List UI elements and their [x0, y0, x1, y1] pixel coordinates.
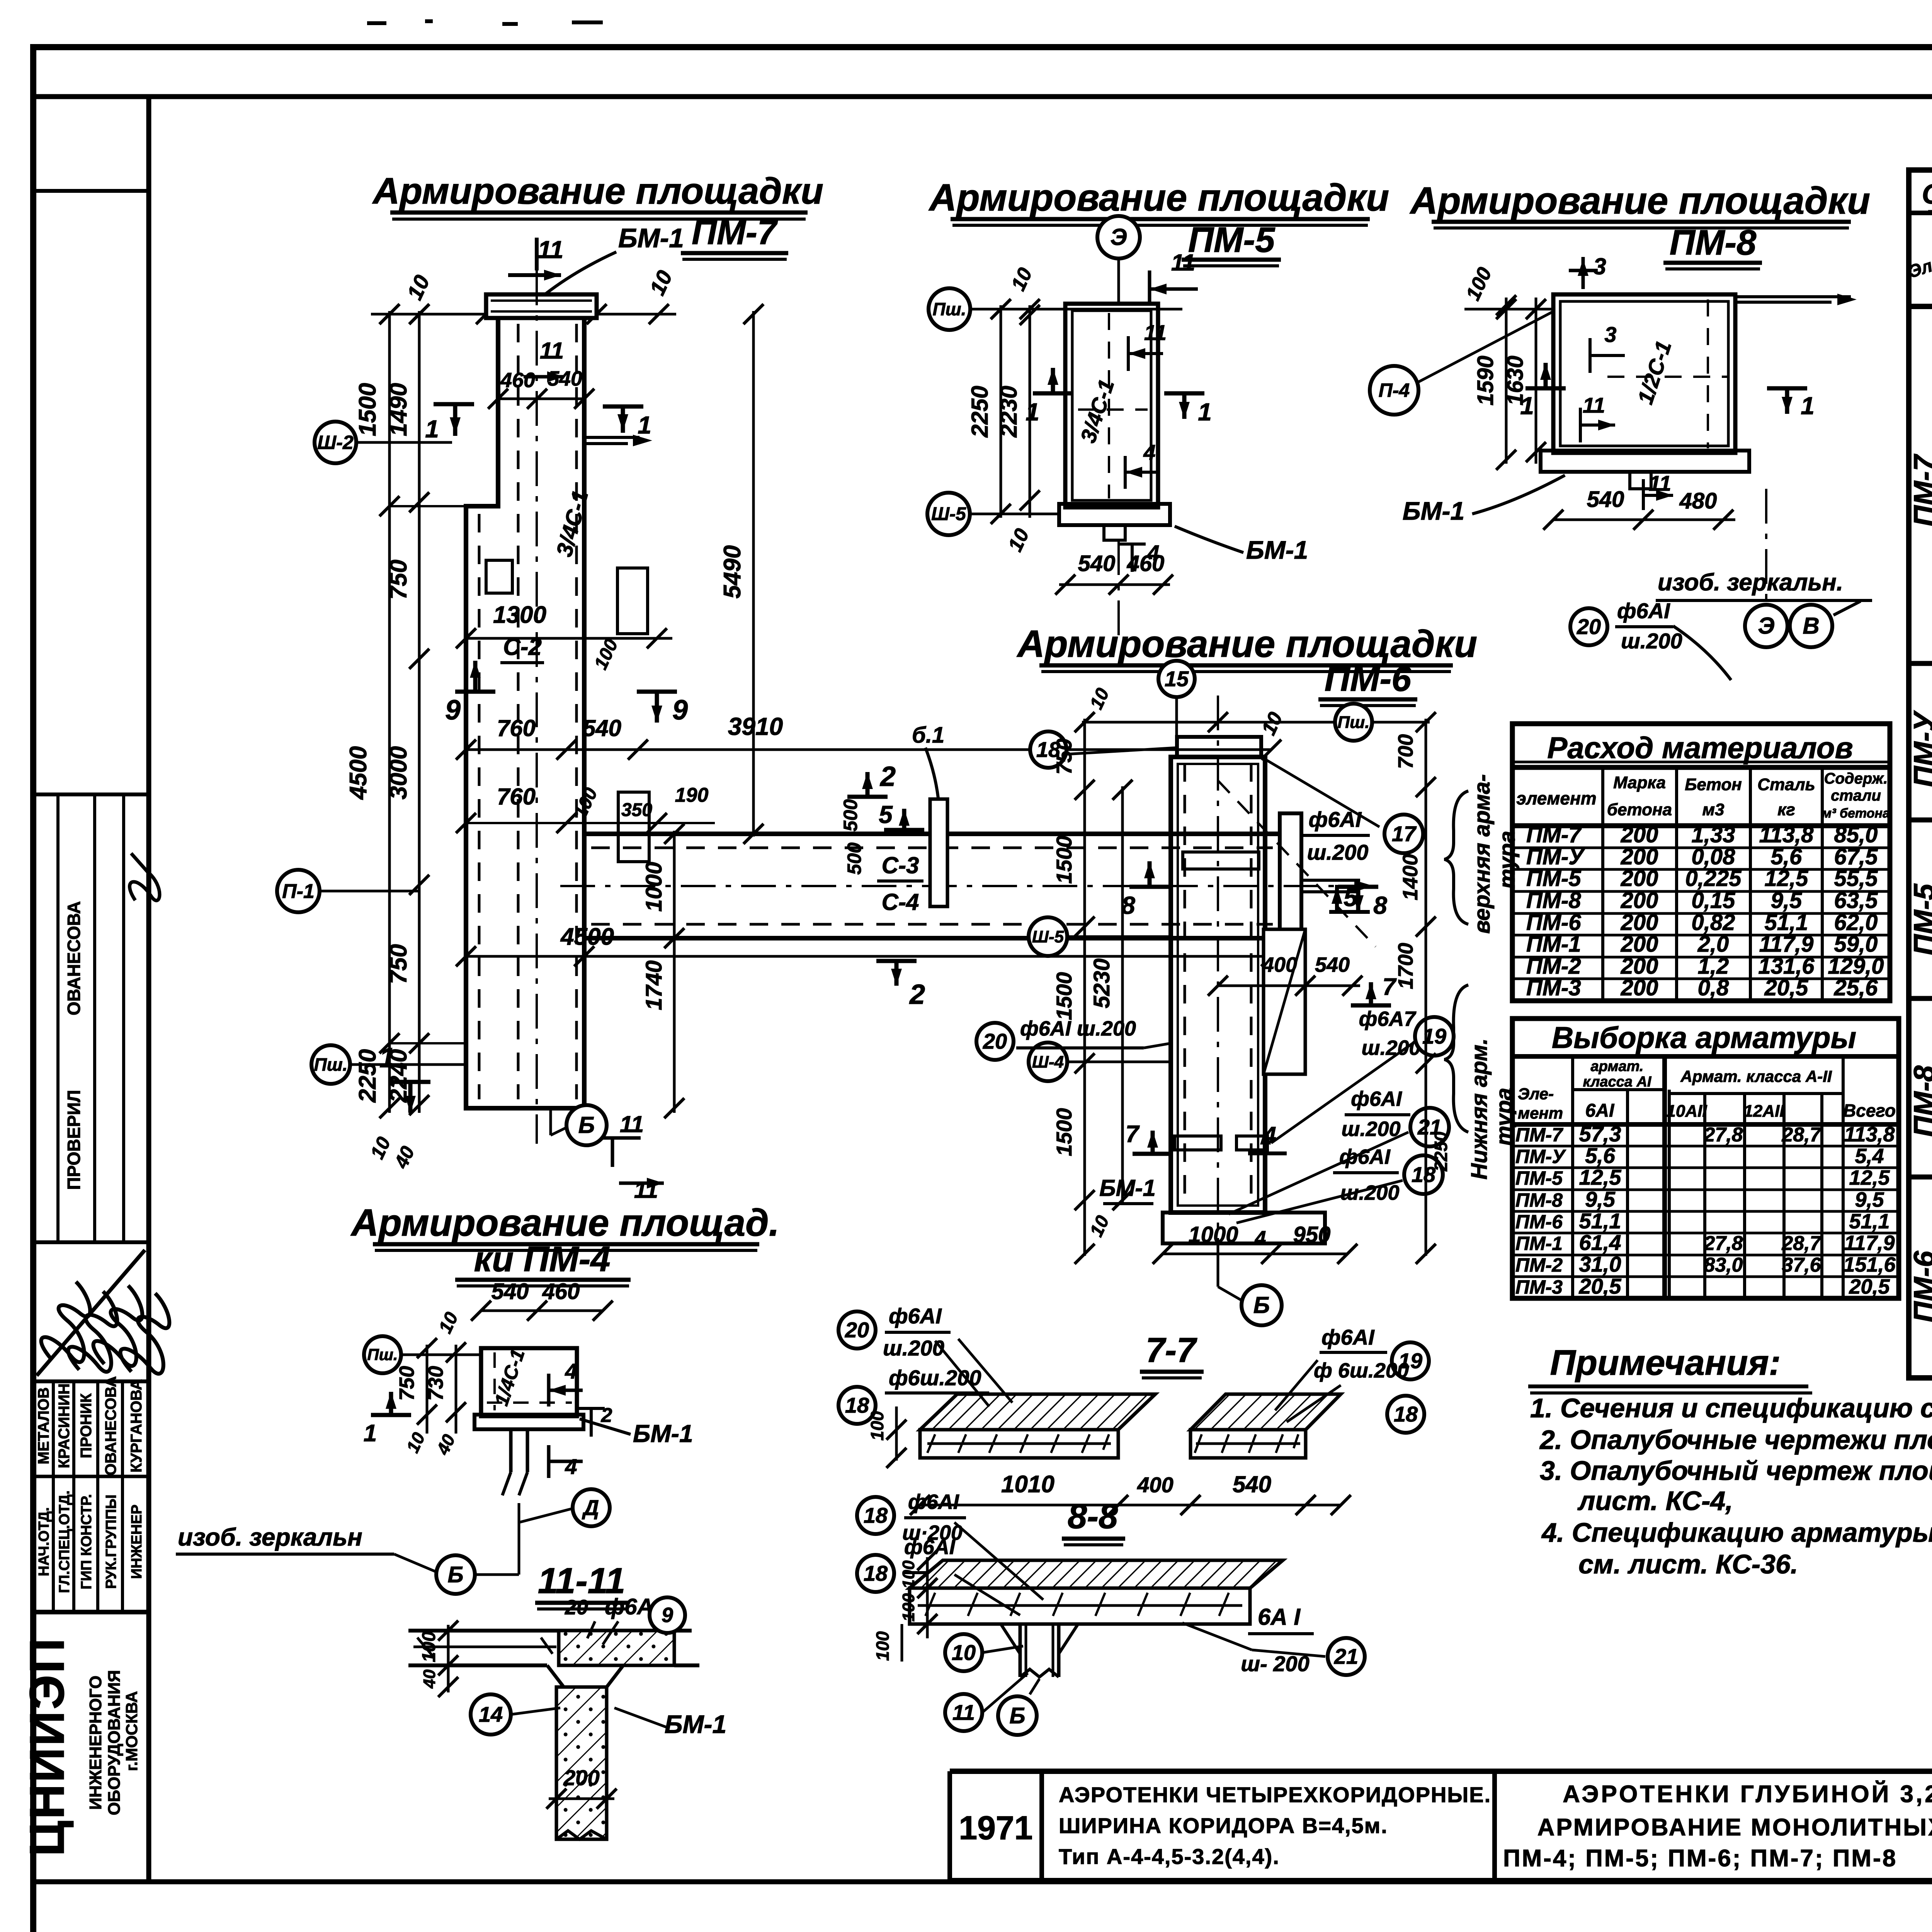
svg-text:21: 21 — [1334, 1644, 1358, 1668]
svg-text:С-3: С-3 — [882, 852, 919, 878]
section 8-8 leaders from labels — [954, 1522, 1043, 1600]
section 11-11 dims left — [447, 1625, 450, 1692]
PM-5 main rect — [1065, 304, 1158, 507]
svg-text:м3: м3 — [1702, 800, 1724, 819]
svg-text:200: 200 — [1621, 932, 1658, 957]
svg-text:Марка: Марка — [1613, 773, 1666, 792]
PM-6 right dim chain — [1425, 719, 1427, 1256]
svg-text:ф6А7: ф6А7 — [1359, 1007, 1417, 1031]
svg-text:20,5: 20,5 — [1764, 975, 1809, 1000]
bottom band line — [33, 1879, 1932, 1884]
PM-7 arm plate B1 — [930, 799, 947, 906]
svg-text:9: 9 — [445, 695, 461, 726]
svg-text:ПМ-5: ПМ-5 — [1515, 1167, 1563, 1189]
svg-text:ф6АI ш.200: ф6АI ш.200 — [1020, 1017, 1136, 1040]
svg-text:кг: кг — [1777, 800, 1795, 819]
PM-7 right dim 5490 — [752, 311, 755, 837]
svg-text:1: 1 — [638, 411, 651, 439]
svg-text:2250: 2250 — [967, 386, 993, 437]
svg-text:Э: Э — [1758, 613, 1774, 639]
svg-text:55,5: 55,5 — [1834, 866, 1878, 891]
PM-7 left axis circle Sh-2 — [315, 422, 356, 463]
svg-text:лист. КС-4,: лист. КС-4, — [1577, 1486, 1733, 1516]
svg-text:200: 200 — [1621, 888, 1658, 913]
svg-text:540: 540 — [1587, 487, 1624, 512]
svg-text:3: 3 — [1604, 322, 1616, 347]
svg-text:11: 11 — [952, 1700, 975, 1725]
svg-text:ПМ-4; ПМ-5; ПМ-6; ПМ-7; ПМ-8: ПМ-4; ПМ-5; ПМ-6; ПМ-7; ПМ-8 — [1503, 1845, 1897, 1872]
PM-7 top axis line — [371, 313, 676, 316]
svg-text:85,0: 85,0 — [1834, 822, 1878, 847]
svg-text:Армирование площадки: Армирование площадки — [372, 170, 823, 212]
svg-text:20,5: 20,5 — [1849, 1275, 1890, 1298]
svg-text:ПРОВЕРИЛ: ПРОВЕРИЛ — [64, 1090, 84, 1190]
svg-text:4: 4 — [565, 1454, 577, 1479]
svg-text:ш.200: ш.200 — [1307, 840, 1369, 864]
stamp name-title columns vlines — [52, 1381, 55, 1612]
svg-text:1590: 1590 — [1473, 355, 1498, 405]
svg-text:1500: 1500 — [1052, 836, 1076, 884]
svg-text:5490: 5490 — [719, 545, 746, 599]
svg-text:РУК.ГРУППЫ: РУК.ГРУППЫ — [103, 1495, 119, 1589]
svg-text:750: 750 — [385, 944, 412, 984]
PM-7 step small rect — [486, 560, 512, 593]
svg-text:ОВАНЕСОВА: ОВАНЕСОВА — [102, 1376, 119, 1475]
section 11-11 column hatched — [556, 1687, 607, 1839]
svg-text:1700: 1700 — [1394, 943, 1417, 989]
svg-text:59,0: 59,0 — [1834, 932, 1878, 957]
PM-8 circles E V — [1765, 489, 1767, 604]
section 8-8 labels left — [857, 1497, 894, 1534]
svg-text:Армирование площадки: Армирование площадки — [1409, 179, 1870, 222]
svg-text:ГИП КОНСТР.: ГИП КОНСТР. — [78, 1494, 95, 1590]
svg-text:ПМ-У: ПМ-У — [1515, 1146, 1566, 1167]
PM-6 mid plates — [1175, 1136, 1221, 1150]
svg-text:8-8: 8-8 — [1068, 1497, 1118, 1536]
svg-text:верхняя арма-: верхняя арма- — [1469, 774, 1495, 934]
svg-text:Пш.: Пш. — [314, 1054, 348, 1075]
svg-text:100: 100 — [867, 1411, 887, 1440]
svg-text:18: 18 — [864, 1503, 888, 1527]
PM-6 wall centerline — [1217, 696, 1219, 1267]
svg-text:9,5: 9,5 — [1855, 1188, 1884, 1211]
svg-text:950: 950 — [1293, 1222, 1331, 1247]
PM-5 dim 2250 2230 — [1000, 305, 1002, 518]
svg-text:КУРГАНОВА: КУРГАНОВА — [128, 1379, 145, 1473]
svg-text:ПМ-У: ПМ-У — [1908, 710, 1932, 787]
svg-text:ф6АI: ф6АI — [1617, 599, 1670, 623]
svg-text:63,5: 63,5 — [1834, 888, 1878, 913]
svg-text:ф 6ш.200: ф 6ш.200 — [1314, 1359, 1409, 1382]
section 11-11 circle 14 — [471, 1694, 511, 1735]
rashod table frame — [1512, 724, 1890, 1001]
svg-text:2250: 2250 — [354, 1049, 381, 1103]
svg-text:ПМ-5: ПМ-5 — [1908, 883, 1932, 955]
svg-text:117,9: 117,9 — [1759, 932, 1814, 957]
svg-text:1: 1 — [379, 1043, 395, 1073]
svg-text:тура: тура — [1492, 1088, 1517, 1146]
svg-text:730: 730 — [424, 1366, 447, 1401]
PM-6 dim 5230 — [1121, 786, 1124, 1204]
svg-text:7: 7 — [1126, 1121, 1140, 1148]
svg-text:Ш-2: Ш-2 — [317, 432, 354, 453]
svg-text:Сталь: Сталь — [1757, 775, 1815, 794]
PM-7 dim extension lines — [389, 505, 466, 507]
svg-text:117,9: 117,9 — [1844, 1231, 1895, 1255]
PM-7 inner opening small rect A — [617, 568, 648, 634]
svg-text:ШИРИНА КОРИДОРА В=4,5м.: ШИРИНА КОРИДОРА В=4,5м. — [1059, 1813, 1388, 1838]
top band line — [33, 94, 1932, 99]
spec table outer frame — [1909, 170, 1932, 1378]
svg-text:2250: 2250 — [1431, 1131, 1451, 1172]
svg-text:51,1: 51,1 — [1579, 1209, 1621, 1233]
svg-text:ОВАНЕСОВА: ОВАНЕСОВА — [64, 901, 84, 1015]
svg-text:200: 200 — [1621, 822, 1658, 847]
stamp signature top — [112, 853, 172, 910]
section 8-8 slab — [910, 1560, 1283, 1588]
svg-text:1: 1 — [1801, 392, 1815, 420]
svg-text:бетона: бетона — [1607, 800, 1672, 819]
svg-text:П-4: П-4 — [1379, 379, 1410, 401]
svg-text:151,6: 151,6 — [1843, 1253, 1896, 1276]
svg-text:0,8: 0,8 — [1698, 975, 1729, 1000]
PM-7 dim 4500 arm — [466, 955, 1271, 958]
PM-8 top axis line right — [1735, 295, 1851, 298]
svg-text:ф6АI: ф6АI — [1351, 1087, 1402, 1111]
svg-text:4: 4 — [1143, 440, 1155, 464]
svg-text:2230: 2230 — [996, 386, 1022, 437]
svg-text:АЭРОТЕНКИ ЧЕТЫРЕХКОРИДОРНЫЕ.: АЭРОТЕНКИ ЧЕТЫРЕХКОРИДОРНЫЕ. — [1059, 1782, 1491, 1807]
svg-text:0,15: 0,15 — [1692, 888, 1736, 913]
svg-text:6АI: 6АI — [1585, 1100, 1615, 1121]
svg-text:3910: 3910 — [728, 713, 783, 740]
svg-text:изоб. зеркальн.: изоб. зеркальн. — [1658, 569, 1843, 596]
PM-7 section marks 5 — [884, 828, 924, 832]
PM-6 axis circle Sh-4 — [1029, 1043, 1067, 1081]
svg-text:б.1: б.1 — [912, 723, 944, 748]
svg-text:армат.: армат. — [1591, 1058, 1644, 1075]
section 11-11 slab left — [408, 1629, 692, 1633]
svg-text:1500: 1500 — [1052, 972, 1076, 1020]
svg-text:100: 100 — [899, 1593, 918, 1622]
PM-8 inner dashed — [1707, 299, 1709, 448]
section 7-7 dims — [920, 1504, 1341, 1507]
svg-text:Б: Б — [578, 1112, 595, 1138]
svg-text:1. Сечения и спецификацию см.: 1. Сечения и спецификацию см.КС-36. — [1530, 1393, 1932, 1423]
svg-text:460: 460 — [500, 369, 535, 392]
svg-text:ПМ-7: ПМ-7 — [1526, 822, 1582, 847]
svg-text:460: 460 — [1127, 551, 1165, 576]
svg-text:ПМ-2: ПМ-2 — [1515, 1254, 1563, 1276]
svg-text:18: 18 — [864, 1561, 888, 1585]
svg-text:ф6АI: ф6АI — [1321, 1325, 1375, 1349]
PM-7 wall outline — [466, 318, 584, 1108]
svg-text:ф6АI: ф6АI — [1309, 807, 1362, 832]
svg-text:4: 4 — [1255, 1227, 1266, 1250]
svg-text:Ш-4: Ш-4 — [1032, 1053, 1064, 1071]
svg-text:Эле-: Эле- — [1518, 1085, 1554, 1103]
section 11-11 slab right hatched — [559, 1631, 674, 1665]
svg-text:ш.200: ш.200 — [1621, 629, 1682, 653]
svg-text:ф6ш.200: ф6ш.200 — [889, 1366, 981, 1390]
svg-text:750: 750 — [1052, 738, 1076, 774]
svg-text:3. Опалубочный чертеж площад: 3. Опалубочный чертеж площадки ПМ-6 см. — [1540, 1456, 1932, 1486]
svg-text:Армат. класса А-II: Армат. класса А-II — [1680, 1067, 1832, 1085]
section 8-8 dims left — [926, 1557, 929, 1638]
PM-7 arm outline — [584, 832, 1280, 836]
PM-8 dims 1590 1630 — [1505, 298, 1508, 464]
svg-text:П-1: П-1 — [282, 880, 315, 903]
svg-text:С-2: С-2 — [503, 634, 542, 660]
scan specks top — [367, 21, 386, 25]
svg-text:500: 500 — [844, 842, 865, 875]
svg-text:ф6АI: ф6АI — [889, 1304, 942, 1328]
svg-text:ПМ-6: ПМ-6 — [1515, 1211, 1563, 1233]
PM-8 main rect — [1553, 294, 1735, 453]
title block frame — [950, 1769, 1932, 1774]
svg-text:2. Опалубочные чертежи площа: 2. Опалубочные чертежи площадок см.КС-35… — [1539, 1425, 1932, 1455]
svg-text:9: 9 — [662, 1604, 673, 1627]
section 8-8 circles 10 11 — [945, 1634, 982, 1671]
svg-text:20: 20 — [565, 1596, 588, 1619]
svg-text:31,0: 31,0 — [1579, 1252, 1621, 1276]
svg-text:Выборка арматуры: Выборка арматуры — [1552, 1020, 1856, 1054]
PM-5 section marks 1 — [1033, 391, 1073, 396]
PM-7 circle B bottom — [549, 1110, 552, 1135]
vyborka header boxes — [1571, 1056, 1574, 1298]
svg-text:28,7: 28,7 — [1781, 1232, 1821, 1255]
svg-text:100: 100 — [872, 1631, 893, 1661]
svg-text:Ш-5: Ш-5 — [931, 504, 966, 524]
PM-6 axis circle Sh-5 — [1029, 917, 1067, 956]
PM-7 left dim chain inner — [418, 311, 421, 1113]
PM-4 leader to D circle — [518, 1503, 520, 1522]
svg-text:480: 480 — [1679, 488, 1717, 514]
svg-text:Содерж.: Содерж. — [1824, 770, 1888, 787]
PM-6 circle B bottom — [1217, 1243, 1219, 1287]
spec table group separators full — [1909, 661, 1932, 666]
PM-4 section marks 1 — [371, 1413, 411, 1417]
stamp internal hlines — [33, 189, 149, 193]
svg-text:ПМ-3: ПМ-3 — [1515, 1276, 1563, 1298]
svg-text:1010: 1010 — [1001, 1471, 1054, 1498]
svg-text:1: 1 — [1026, 398, 1039, 426]
svg-text:элемент: элемент — [1516, 788, 1596, 808]
svg-text:МЕТАЛОВ: МЕТАЛОВ — [35, 1387, 52, 1464]
PM-8 bottom plate — [1541, 451, 1749, 472]
svg-text:ш.200: ш.200 — [883, 1336, 944, 1360]
svg-text:ПМ-1: ПМ-1 — [1515, 1233, 1563, 1254]
svg-text:14: 14 — [479, 1702, 503, 1726]
svg-text:Бетон: Бетон — [1685, 775, 1742, 794]
PM-6 inner bar 8-8 level — [1183, 852, 1259, 869]
svg-text:Армирование площадки: Армирование площадки — [1016, 622, 1477, 665]
svg-text:200: 200 — [1621, 975, 1658, 1000]
svg-text:Всего: Всего — [1843, 1100, 1896, 1121]
svg-text:ПМ-5: ПМ-5 — [1188, 220, 1276, 260]
svg-text:460: 460 — [542, 1279, 580, 1304]
svg-text:ш.200: ш.200 — [1341, 1117, 1400, 1141]
svg-text:БМ-1: БМ-1 — [1246, 536, 1308, 564]
PM-5 axis circle Sh-5 — [927, 493, 970, 535]
svg-text:ЦНИИЭП: ЦНИИЭП — [20, 1637, 74, 1856]
svg-text:1: 1 — [425, 415, 439, 443]
PM-7 wall inner dashed lines — [517, 324, 520, 1099]
svg-text:Ш-5: Ш-5 — [1032, 927, 1064, 946]
svg-text:тура: тура — [1495, 831, 1520, 889]
svg-text:БМ-1: БМ-1 — [665, 1710, 726, 1738]
section 7-7 leaders — [935, 1341, 989, 1406]
PM-6 bottom dims — [1163, 1253, 1347, 1255]
stamp zone A sub vlines — [56, 794, 60, 1242]
svg-text:С-4: С-4 — [882, 889, 919, 915]
PM-4 inner dashed — [493, 1352, 496, 1410]
PM-6 opening rect — [1264, 929, 1305, 1074]
svg-text:1300: 1300 — [493, 602, 546, 628]
svg-text:83,0: 83,0 — [1704, 1254, 1743, 1276]
svg-text:4500: 4500 — [560, 923, 614, 950]
svg-text:ПМ-8: ПМ-8 — [1908, 1065, 1932, 1137]
svg-text:БМ-1: БМ-1 — [618, 223, 684, 253]
svg-text:11: 11 — [540, 338, 564, 364]
label 20 cluster below PM-5 — [1570, 608, 1607, 645]
svg-text:ф6АI: ф6АI — [908, 1490, 959, 1514]
section 8-8 circle B — [1030, 1679, 1039, 1694]
svg-text:40: 40 — [420, 1669, 439, 1689]
svg-text:17: 17 — [1392, 821, 1417, 846]
PM-6 wall outline — [1171, 757, 1265, 1213]
svg-text:540: 540 — [583, 715, 621, 741]
section 7-7 slab right — [1190, 1394, 1341, 1430]
svg-text:3000: 3000 — [385, 746, 412, 799]
section 11-11 neck — [547, 1665, 623, 1687]
svg-text:г.МОСКВА: г.МОСКВА — [122, 1691, 141, 1771]
svg-text:11: 11 — [620, 1111, 644, 1137]
svg-text:м³ бетона: м³ бетона — [1822, 806, 1890, 821]
svg-text:7-7: 7-7 — [1146, 1331, 1197, 1370]
section 8-8 column below — [1019, 1624, 1022, 1677]
svg-text:200: 200 — [563, 1765, 599, 1790]
spec table header bottom line — [1909, 304, 1932, 309]
svg-text:61,4: 61,4 — [1579, 1230, 1621, 1255]
svg-text:Примечания:: Примечания: — [1550, 1343, 1781, 1383]
svg-text:ПМ-8: ПМ-8 — [1526, 888, 1581, 913]
svg-text:5230: 5230 — [1089, 958, 1114, 1008]
svg-text:100: 100 — [899, 1560, 918, 1589]
svg-text:15: 15 — [1165, 667, 1189, 691]
svg-text:Армирование площадки: Армирование площадки — [928, 176, 1389, 219]
svg-text:18: 18 — [1394, 1402, 1418, 1426]
svg-text:ПМ-7: ПМ-7 — [1908, 453, 1932, 526]
PM-4 plate — [474, 1415, 583, 1429]
PM-6 bottom plate — [1163, 1213, 1325, 1243]
PM-7 arm centerline with exit arrow — [560, 885, 1368, 887]
svg-text:1500: 1500 — [354, 383, 381, 436]
svg-text:190: 190 — [675, 784, 709, 806]
svg-text:1000: 1000 — [641, 862, 667, 912]
svg-text:5: 5 — [879, 801, 893, 828]
svg-text:540: 540 — [1315, 953, 1350, 976]
PM-6 wall inner dashed — [1184, 763, 1186, 1206]
svg-text:10АII: 10АII — [1666, 1102, 1707, 1121]
PM-6 circle 20 left — [976, 1023, 1014, 1060]
svg-text:4: 4 — [565, 1359, 577, 1383]
PM-8 axis circle P-4 — [1370, 366, 1418, 415]
svg-text:2,0: 2,0 — [1697, 932, 1729, 957]
PM-7 inner opening small rect B — [618, 792, 649, 862]
svg-text:мент: мент — [1518, 1104, 1563, 1122]
PM-5 bottom plate — [1059, 504, 1170, 525]
svg-text:5,6: 5,6 — [1585, 1143, 1616, 1168]
svg-text:ПМ-3: ПМ-3 — [1526, 975, 1581, 1000]
PM-6 mark 7 right — [1351, 1003, 1391, 1008]
svg-text:Б: Б — [1009, 1703, 1025, 1728]
PM-7 left axis circle Psh — [311, 1045, 350, 1084]
svg-text:ф6АI: ф6АI — [904, 1536, 956, 1559]
svg-text:Армирование площад.: Армирование площад. — [350, 1201, 779, 1244]
PM-7 section marks 1 lower — [390, 1080, 430, 1084]
svg-text:11: 11 — [538, 236, 563, 264]
vyborka table frame — [1512, 1019, 1899, 1298]
PM-7 left dim chain outer — [388, 311, 391, 1113]
svg-text:1: 1 — [1198, 398, 1212, 426]
svg-text:1740: 1740 — [641, 960, 667, 1010]
svg-text:540: 540 — [548, 367, 582, 390]
svg-text:Пш.: Пш. — [1338, 713, 1370, 732]
svg-text:200: 200 — [1621, 866, 1658, 891]
svg-text:ф6АI: ф6АI — [1339, 1145, 1391, 1168]
svg-text:20,5: 20,5 — [1579, 1274, 1622, 1298]
svg-text:400: 400 — [1262, 953, 1297, 976]
PM-4 main rect — [481, 1348, 577, 1416]
svg-text:4. Спецификацию арматуры на: 4. Спецификацию арматуры на ПМ-1,2,3 — [1541, 1517, 1932, 1548]
PM-7 section 1-1 exit arrow right — [584, 436, 639, 439]
PM-7 dim row 760 540 3910 — [466, 748, 1271, 751]
svg-text:12,5: 12,5 — [1765, 866, 1809, 891]
stamp signatures block — [36, 1279, 112, 1372]
PM-4 axis circle Psh — [364, 1336, 401, 1373]
PM-6 mark 7 left — [1133, 1152, 1173, 1156]
svg-text:2: 2 — [879, 761, 896, 792]
svg-text:750: 750 — [385, 560, 412, 599]
PM-7 section marks 9 — [455, 690, 495, 694]
PM-7 dim 1000 1740 — [673, 831, 676, 1113]
svg-text:Расход материалов: Расход материалов — [1547, 731, 1853, 765]
svg-text:АРМИРОВАНИЕ МОНОЛИТНЫХ ПЛОЩАДО: АРМИРОВАНИЕ МОНОЛИТНЫХ ПЛОЩАДОК — [1537, 1814, 1932, 1841]
rashod column lines — [1601, 767, 1604, 1001]
svg-text:Б: Б — [1253, 1292, 1270, 1318]
svg-text:51,1: 51,1 — [1849, 1210, 1889, 1233]
svg-text:20: 20 — [845, 1318, 869, 1342]
svg-text:2: 2 — [909, 979, 925, 1010]
PM-7 section marks 2 — [847, 795, 888, 799]
svg-text:3: 3 — [1593, 253, 1606, 279]
svg-text:1490: 1490 — [385, 383, 412, 436]
svg-text:12,5: 12,5 — [1579, 1165, 1622, 1189]
svg-text:В: В — [1803, 613, 1819, 639]
svg-text:10: 10 — [952, 1640, 976, 1665]
svg-text:ОБОРУДОВАНИЯ: ОБОРУДОВАНИЯ — [105, 1670, 124, 1815]
PM-6 brace upper arm note — [1444, 791, 1468, 924]
PM-7 wall centerline — [536, 270, 538, 1144]
svg-text:12АII: 12АII — [1743, 1102, 1784, 1121]
svg-text:5,4: 5,4 — [1855, 1145, 1884, 1168]
svg-text:350: 350 — [621, 800, 652, 820]
svg-text:Спецификация арматуры на 1э: Спецификация арматуры на 1элемент — [1922, 179, 1932, 210]
PM-4 stem below — [509, 1429, 513, 1472]
PM-5 inner dashed — [1108, 313, 1110, 498]
svg-text:ПРОНИК: ПРОНИК — [78, 1393, 95, 1458]
